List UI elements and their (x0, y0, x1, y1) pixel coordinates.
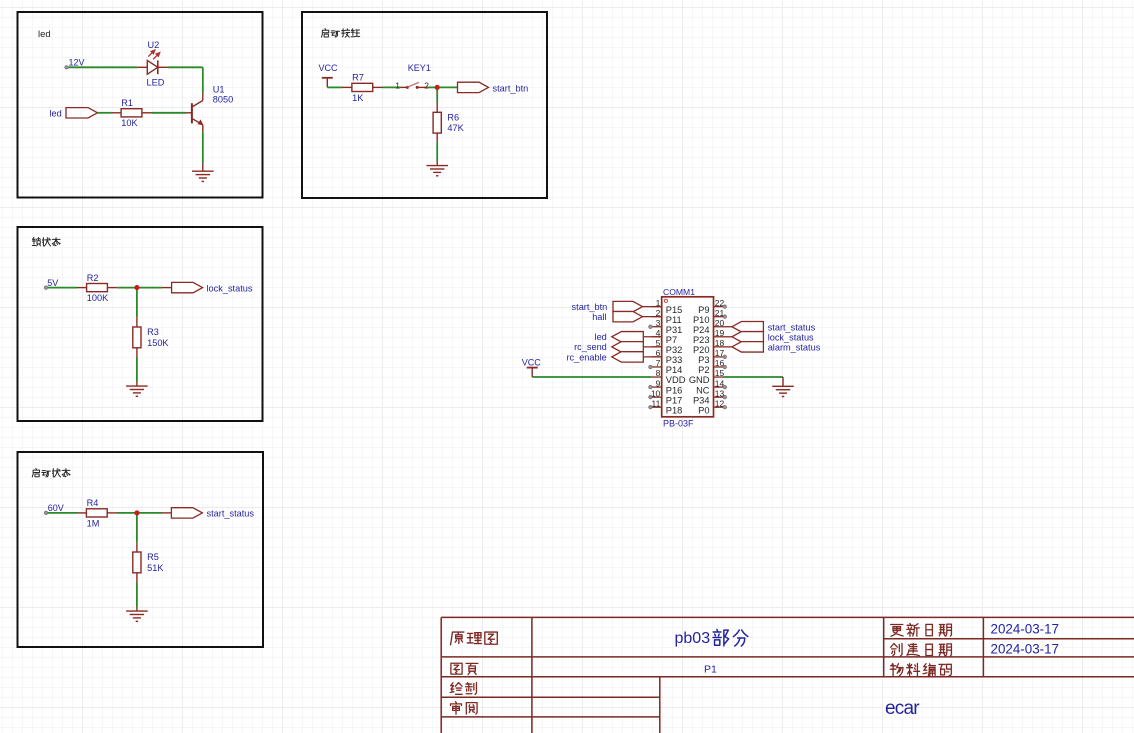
svg-text:1: 1 (395, 80, 400, 90)
svg-text:rc_enable: rc_enable (566, 352, 606, 362)
svg-text:2024-03-17: 2024-03-17 (991, 642, 1060, 657)
svg-text:COMM1: COMM1 (663, 287, 695, 297)
svg-text:start_status: start_status (207, 509, 255, 519)
svg-text:ecar: ecar (885, 698, 920, 719)
svg-text:100K: 100K (87, 293, 109, 303)
svg-text:10K: 10K (121, 118, 138, 128)
svg-text:rc_send: rc_send (574, 342, 607, 352)
svg-text:1M: 1M (87, 518, 100, 528)
svg-text:P3: P3 (698, 355, 709, 365)
svg-text:5V: 5V (47, 278, 58, 288)
svg-text:U2: U2 (148, 40, 160, 50)
svg-text:VCC: VCC (522, 358, 542, 368)
svg-text:15: 15 (715, 368, 725, 378)
svg-text:3: 3 (656, 318, 661, 328)
svg-text:P16: P16 (666, 385, 683, 395)
svg-text:51K: 51K (147, 563, 164, 573)
svg-text:led: led (50, 109, 62, 119)
svg-text:R4: R4 (87, 498, 99, 508)
svg-text:P31: P31 (666, 325, 683, 335)
svg-text:R5: R5 (147, 552, 159, 562)
svg-text:P2: P2 (698, 365, 709, 375)
svg-text:led: led (38, 29, 51, 40)
svg-text:P17: P17 (666, 395, 683, 405)
svg-text:P34: P34 (693, 395, 710, 405)
svg-text:60V: 60V (48, 503, 64, 513)
svg-text:18: 18 (715, 338, 725, 348)
svg-text:11: 11 (651, 398, 660, 408)
svg-text:R3: R3 (147, 327, 159, 337)
svg-text:P24: P24 (693, 325, 710, 335)
svg-text:P14: P14 (666, 365, 683, 375)
svg-text:NC: NC (696, 385, 710, 395)
svg-text:P9: P9 (698, 305, 709, 315)
svg-text:hall: hall (592, 312, 606, 322)
svg-text:2024-03-17: 2024-03-17 (991, 622, 1060, 637)
svg-text:VDD: VDD (666, 375, 686, 385)
svg-text:P18: P18 (666, 405, 683, 415)
svg-text:U1: U1 (213, 85, 225, 95)
svg-text:P33: P33 (666, 355, 683, 365)
svg-text:P1: P1 (704, 663, 717, 675)
svg-text:12V: 12V (69, 58, 85, 68)
svg-text:P23: P23 (693, 335, 710, 345)
svg-text:P0: P0 (698, 405, 709, 415)
svg-text:led: led (595, 332, 607, 342)
svg-text:pb03: pb03 (675, 630, 711, 647)
svg-text:2: 2 (424, 80, 429, 90)
svg-text:1K: 1K (352, 93, 364, 103)
svg-text:VCC: VCC (319, 63, 339, 73)
svg-text:9: 9 (656, 378, 661, 388)
svg-text:P11: P11 (666, 315, 682, 325)
svg-text:start_btn: start_btn (493, 83, 529, 93)
svg-text:alarm_status: alarm_status (768, 342, 821, 352)
svg-text:20: 20 (715, 318, 725, 328)
svg-text:8050: 8050 (213, 94, 233, 104)
svg-text:GND: GND (689, 375, 710, 385)
svg-text:lock_status: lock_status (768, 332, 814, 342)
svg-text:150K: 150K (147, 338, 169, 348)
svg-text:R2: R2 (87, 273, 99, 283)
svg-text:R6: R6 (447, 112, 459, 122)
svg-text:P15: P15 (666, 305, 683, 315)
svg-text:KEY1: KEY1 (408, 63, 431, 73)
svg-text:start_btn: start_btn (572, 302, 608, 312)
svg-text:P7: P7 (666, 335, 677, 345)
svg-text:start_status: start_status (768, 322, 816, 332)
svg-text:LED: LED (147, 78, 165, 88)
svg-text:8: 8 (656, 368, 661, 378)
svg-text:P10: P10 (693, 315, 710, 325)
svg-text:lock_status: lock_status (207, 283, 253, 293)
svg-text:47K: 47K (447, 123, 464, 133)
svg-text:P32: P32 (666, 345, 683, 355)
svg-text:P20: P20 (693, 345, 710, 355)
svg-text:R7: R7 (352, 73, 364, 83)
svg-text:R1: R1 (121, 98, 133, 108)
svg-text:PB-03F: PB-03F (663, 419, 694, 429)
svg-text:7: 7 (656, 358, 661, 368)
svg-text:19: 19 (715, 328, 725, 338)
